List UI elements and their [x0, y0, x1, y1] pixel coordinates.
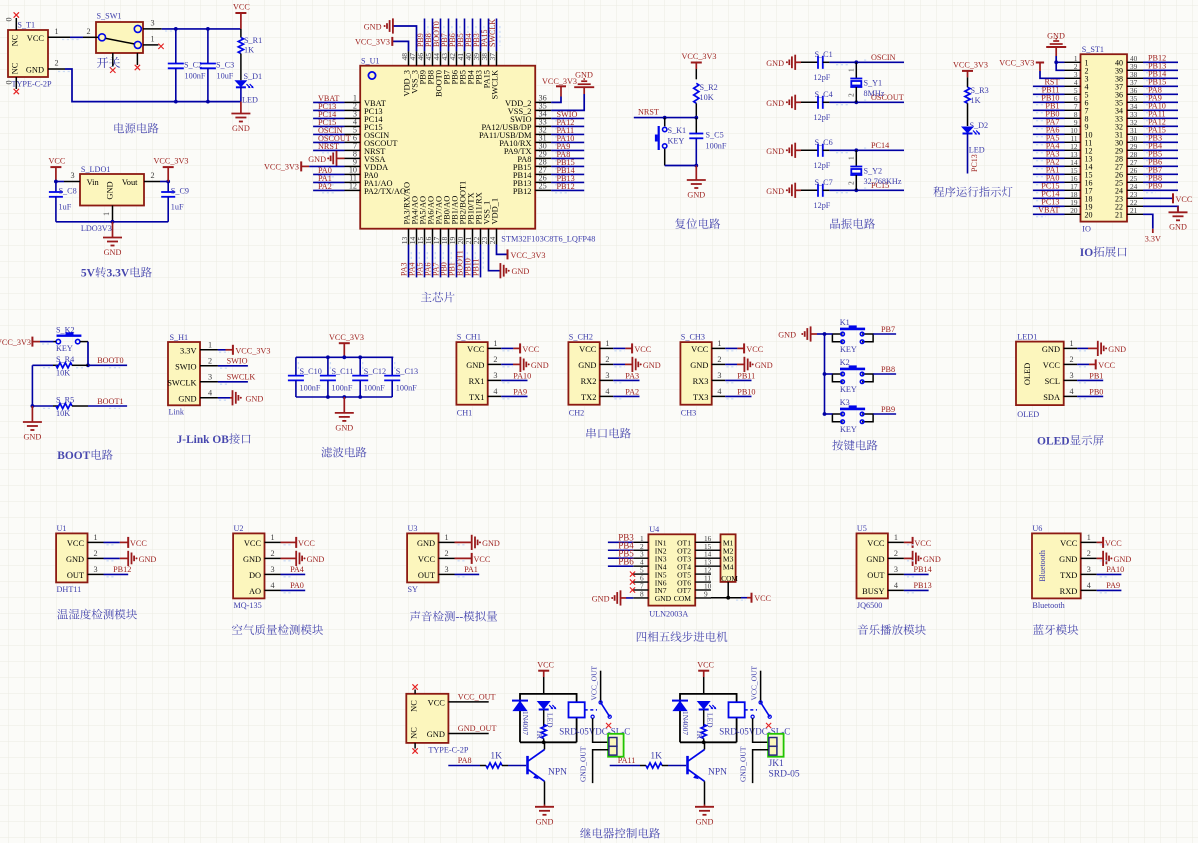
svg-text:1uF: 1uF	[59, 203, 72, 212]
no-connect X relay typec bottom	[412, 748, 417, 753]
svg-text:PB13: PB13	[914, 581, 932, 590]
svg-text:S_C2: S_C2	[184, 61, 202, 70]
U1 top net wires and rotated labels	[424, 19, 426, 52]
header S_CH1 body	[456, 342, 487, 405]
svg-text:100nF: 100nF	[185, 72, 206, 81]
svg-text:GND: GND	[466, 361, 484, 370]
S_T1 pin 1 VCC pin line	[48, 36, 70, 38]
resistor S_R4 10K	[32, 364, 53, 366]
svg-text:K1: K1	[840, 318, 850, 327]
svg-text:100nF: 100nF	[396, 384, 417, 393]
svg-text:S_C4: S_C4	[815, 90, 833, 99]
wire U1 to PB12	[104, 573, 129, 575]
capacitor S_C3 10uF	[207, 29, 209, 64]
U2 pin lines	[265, 541, 281, 543]
flyback diode 1N4007	[512, 700, 528, 702]
svg-text:PB9: PB9	[1148, 182, 1162, 191]
ground flag OLED	[1097, 341, 1099, 356]
wire SWCLK	[218, 381, 248, 383]
svg-text:S_CH1: S_CH1	[457, 333, 481, 342]
U1 left pin lines 1-12	[345, 101, 361, 103]
svg-text:U1: U1	[57, 524, 67, 533]
module U6 Bluetooth body	[1032, 533, 1081, 598]
svg-text:S_SW1: S_SW1	[97, 12, 122, 21]
svg-text:GND_OUT: GND_OUT	[458, 724, 497, 733]
wire U6 to PA10	[1097, 573, 1122, 575]
svg-text:10uF: 10uF	[217, 72, 234, 81]
svg-text:2: 2	[87, 27, 91, 36]
NPN transistor	[526, 756, 529, 774]
svg-text:VCC: VCC	[522, 345, 539, 354]
svg-text:3.3V: 3.3V	[180, 346, 197, 355]
svg-text:S_CH2: S_CH2	[569, 333, 593, 342]
svg-text:2: 2	[847, 93, 856, 97]
svg-text:3.3V: 3.3V	[106, 268, 129, 280]
title BOOT电路	[57, 449, 112, 462]
svg-text:S_D2: S_D2	[970, 121, 989, 130]
svg-text:SWIO: SWIO	[227, 357, 248, 366]
svg-text:S_C1: S_C1	[815, 50, 833, 59]
svg-text:GND: GND	[655, 594, 672, 603]
resistor S_R5 10K	[32, 405, 53, 407]
svg-text:GND: GND	[66, 555, 84, 564]
svg-text:PA3: PA3	[625, 372, 639, 381]
svg-text:GND: GND	[417, 539, 435, 548]
ground flag S_CH2	[631, 357, 633, 372]
svg-text:S_R2: S_R2	[700, 83, 718, 92]
svg-text:1: 1	[847, 156, 856, 160]
svg-text:VCC: VCC	[428, 698, 446, 707]
junction S_C3 bottom	[206, 100, 210, 104]
relay switch blade	[761, 702, 770, 716]
svg-text:GND: GND	[482, 539, 500, 548]
svg-text:1: 1	[1087, 533, 1091, 542]
TYPE-C bottom pin stub	[414, 743, 416, 749]
relay coil outline box	[520, 694, 577, 742]
svg-text:PA10: PA10	[1106, 565, 1124, 574]
S_LDO1 pin 3 line	[64, 181, 80, 183]
svg-text:1K: 1K	[535, 730, 544, 740]
power bar VCC S_CH2	[631, 343, 633, 353]
svg-text:Vin: Vin	[87, 178, 100, 187]
svg-text:3: 3	[208, 373, 212, 382]
wire S_T1 VCC to switch	[70, 36, 83, 38]
svg-text:5V: 5V	[81, 268, 96, 280]
power bar VCC U1	[127, 537, 129, 548]
power bar VCC U3	[471, 553, 473, 564]
power flag VCC_3V3 right of chip	[560, 86, 562, 96]
svg-text:VCC: VCC	[467, 345, 485, 354]
svg-text:K2: K2	[840, 358, 850, 367]
ground symbol power circuit	[240, 102, 242, 113]
U1 pin lines	[88, 541, 104, 543]
capacitor S_C4 12pF	[801, 101, 818, 103]
title 主芯片	[421, 292, 455, 303]
svg-text:12pF: 12pF	[814, 113, 831, 122]
svg-text:GND: GND	[766, 99, 784, 108]
svg-text:10K: 10K	[56, 368, 70, 377]
svg-text:U6: U6	[1032, 524, 1042, 533]
power flag VCC_3V3 filter	[339, 342, 350, 344]
svg-text:VCC_3V3: VCC_3V3	[542, 77, 577, 86]
power bar VCC stepper	[751, 593, 753, 603]
junction NRST-R2-C5	[694, 116, 698, 120]
svg-text:VCC: VCC	[867, 539, 885, 548]
svg-text:1: 1	[271, 533, 275, 542]
svg-text:BUSY: BUSY	[862, 587, 884, 596]
svg-text:24: 24	[488, 237, 497, 245]
svg-text:PC14: PC14	[871, 141, 889, 150]
svg-text:GND: GND	[536, 818, 554, 827]
U6 pin lines	[1081, 541, 1097, 543]
U1 pin1 marker circle	[368, 72, 375, 79]
svg-text:STM32F103C8T6_LQFP48: STM32F103C8T6_LQFP48	[501, 235, 595, 244]
wire filter top rail	[296, 356, 393, 358]
wire VCC_3V3 to K2	[40, 341, 54, 343]
svg-text:NRST: NRST	[638, 108, 659, 117]
svg-text:TX3: TX3	[693, 393, 708, 402]
wire collector to relay	[704, 742, 706, 749]
svg-text:RX2: RX2	[581, 377, 597, 386]
junction S_C2 bottom	[174, 100, 178, 104]
svg-text:1K: 1K	[650, 752, 662, 762]
svg-text:PA2/TX/AO: PA2/TX/AO	[364, 187, 406, 196]
resistor S_R3 1K	[967, 77, 969, 87]
power flag VCC_3V3 above C9	[163, 166, 174, 168]
svg-text:LED: LED	[969, 146, 985, 155]
svg-text:VCC: VCC	[49, 157, 66, 166]
svg-text:1: 1	[894, 533, 898, 542]
svg-text:M4: M4	[723, 562, 734, 571]
svg-text:OLED: OLED	[1017, 410, 1039, 419]
svg-text:PA0: PA0	[290, 581, 304, 590]
svg-text:8MHz: 8MHz	[864, 89, 885, 98]
svg-text:GND: GND	[755, 361, 773, 370]
wire VCC rail from switch pin3 to R1	[162, 28, 241, 30]
svg-text:12pF: 12pF	[814, 161, 831, 170]
wire bottom GND rail	[48, 68, 65, 70]
svg-text:CH1: CH1	[457, 409, 472, 418]
svg-text:VCC: VCC	[1060, 539, 1078, 548]
capacitor S_C8 1uF	[55, 182, 57, 193]
svg-text:3: 3	[493, 371, 497, 380]
wire BOOT0	[88, 364, 127, 366]
no-connect X relay NC contact	[606, 723, 611, 728]
wire U2 to PA0	[281, 589, 306, 591]
svg-text:LED1: LED1	[1017, 332, 1037, 341]
svg-text:0: 0	[5, 17, 14, 21]
junction S_C3 top	[206, 27, 210, 31]
svg-text:1: 1	[445, 533, 449, 542]
power bar VCC U2	[295, 537, 297, 548]
flyback diode 1N4007	[672, 700, 688, 702]
wire S_CH2 RX net PA3	[613, 379, 639, 381]
wire LED to PC13	[967, 134, 969, 174]
ground flag for S_C6	[794, 143, 796, 158]
svg-text:GND: GND	[766, 187, 784, 196]
svg-text:S_C9: S_C9	[171, 187, 189, 196]
S_T1 top NC pin stub	[15, 18, 17, 30]
ground flag bottom right of chip	[499, 263, 501, 278]
screw terminal connector	[768, 734, 784, 757]
svg-text:20: 20	[1070, 206, 1078, 215]
wire K2 to PB8	[873, 373, 896, 375]
svg-text:2: 2	[847, 181, 856, 185]
svg-text:S_C8: S_C8	[59, 187, 77, 196]
svg-text:VBAT: VBAT	[1038, 206, 1059, 215]
wire motor COM down	[727, 582, 729, 598]
junctions filter bottom rail	[326, 395, 330, 399]
ground flag for S_C1	[794, 55, 796, 70]
svg-text:S_C10: S_C10	[300, 367, 322, 376]
svg-text:VCC_3V3: VCC_3V3	[0, 338, 31, 347]
junction BOOT1 gnd rail	[31, 404, 35, 408]
ground flag at U1 VSSA pin 8	[337, 157, 345, 159]
svg-text:4: 4	[605, 387, 609, 396]
wire U2 VCC	[281, 541, 297, 543]
crystal S_Y1 8MHz	[854, 60, 858, 64]
wire left rail boot	[31, 365, 33, 406]
svg-text:VCC_3V3: VCC_3V3	[329, 333, 364, 342]
svg-text:MQ-135: MQ-135	[234, 601, 262, 610]
svg-text:GND: GND	[1059, 555, 1077, 564]
wire filter bottom rail	[296, 396, 392, 398]
S_CH2 pin lines 1-4	[600, 347, 614, 349]
svg-text:CH2: CH2	[569, 409, 584, 418]
regulator S_LDO1 LDO3V3	[80, 174, 144, 206]
svg-text:S_H1: S_H1	[170, 333, 189, 342]
svg-text:100nF: 100nF	[706, 142, 727, 151]
svg-text:K3: K3	[840, 398, 850, 407]
junction rail K1	[823, 332, 827, 336]
svg-text:3: 3	[445, 565, 449, 574]
no-connect X switch bottom right	[135, 65, 140, 70]
title 5V转3.3V电路	[81, 267, 152, 280]
wire ST1 pin23 to VCC	[1143, 197, 1172, 199]
resistor 1K relay led	[703, 710, 705, 726]
wire base to transistor	[668, 765, 686, 767]
svg-text:PA8: PA8	[458, 756, 472, 765]
wire S_CH2 GND	[613, 363, 625, 365]
svg-text:PB0: PB0	[1089, 388, 1103, 397]
svg-text:S_C13: S_C13	[396, 367, 418, 376]
svg-text:GND: GND	[1169, 223, 1187, 232]
net stub 3.3V	[1152, 229, 1154, 233]
ground flag top left of chip	[392, 18, 394, 33]
S_SW1 pin 1 contact circle	[134, 41, 141, 48]
svg-text:GND: GND	[308, 155, 326, 164]
ST1 right pin lines	[1127, 61, 1143, 63]
svg-text:VCC: VCC	[537, 661, 554, 670]
wire OLED SDA to PB0	[1077, 395, 1103, 397]
title 继电器控制电路	[580, 828, 660, 839]
svg-text:GND: GND	[778, 331, 796, 340]
wire S_CH2 TX net PA2	[613, 395, 639, 397]
crystal S_Y2 32.768KHz	[854, 148, 858, 152]
no-connect X relay typec top	[412, 684, 417, 689]
title 四相五线步进电机	[637, 631, 728, 642]
svg-text:4: 4	[208, 389, 212, 398]
svg-text:PB12: PB12	[513, 187, 532, 196]
wire Vout to VCC_3V3	[160, 181, 168, 183]
wire U1 VSS_1 pin23 to GND	[489, 245, 501, 271]
svg-text:GND: GND	[139, 555, 157, 564]
S_SW1 pin 2 contact circle	[99, 34, 106, 41]
svg-text:4: 4	[493, 387, 497, 396]
U1 top pin lines 48-37	[408, 51, 410, 65]
svg-text:GND: GND	[178, 394, 196, 403]
svg-text:SWCLK: SWCLK	[167, 378, 196, 387]
module LED1 OLED body	[1016, 342, 1064, 406]
IC S_U1 STM32F103C8T6_LQFP48 body	[360, 66, 535, 229]
svg-text:Bluetooth: Bluetooth	[1032, 601, 1064, 610]
title 蓝牙模块	[1033, 624, 1078, 635]
svg-text:2: 2	[605, 355, 609, 364]
LED1 pin lines 1-4	[1064, 347, 1078, 349]
svg-text:OUT: OUT	[418, 571, 435, 580]
svg-text:GND: GND	[232, 124, 250, 133]
wire U3 GND	[455, 541, 472, 543]
S_SW1 pin 2 pin line	[83, 36, 98, 38]
svg-text:GND: GND	[687, 191, 705, 200]
svg-text:GND: GND	[307, 555, 325, 564]
svg-text:VCC: VCC	[418, 555, 436, 564]
svg-text:S_Y2: S_Y2	[864, 167, 883, 176]
svg-text:DO: DO	[249, 571, 261, 580]
svg-text:SY: SY	[408, 585, 419, 594]
S_H1 pin lines 1-4	[200, 349, 218, 351]
svg-text:VCC: VCC	[579, 345, 597, 354]
relay dashed link	[745, 709, 757, 711]
S_SW1 bottom pin stubs	[112, 53, 114, 67]
TYPE-C top pin stub	[414, 690, 416, 694]
title 程序运行指示灯	[933, 186, 1012, 196]
power flag VCC_3V3 reset	[691, 62, 702, 64]
title 声音检测--模拟量	[410, 611, 497, 624]
svg-text:2: 2	[271, 549, 275, 558]
ground symbol LDO	[112, 222, 114, 237]
svg-text:PA11: PA11	[618, 756, 636, 765]
power bar VCC U5	[912, 537, 914, 548]
U3 pin lines	[439, 541, 455, 543]
IC U4 ULN2003A body	[648, 534, 695, 605]
relay indicator LED	[697, 701, 711, 710]
svg-text:1: 1	[493, 339, 497, 348]
svg-text:S_R3: S_R3	[971, 86, 989, 95]
svg-text:IO: IO	[1082, 225, 1091, 234]
connector TYPE-C-2P relay power	[406, 694, 448, 743]
svg-text:GND: GND	[512, 267, 530, 276]
wire S_CH3 GND	[725, 363, 737, 365]
svg-text:PB8: PB8	[881, 365, 895, 374]
capacitor S_C2 100nF	[175, 29, 177, 64]
ground symbol right of chip	[583, 87, 585, 94]
svg-text:TX1: TX1	[469, 393, 484, 402]
resistor S_R1 1K	[240, 29, 242, 38]
wire button rail	[824, 334, 826, 414]
svg-text:4: 4	[1087, 581, 1091, 590]
svg-text:GND: GND	[866, 555, 884, 564]
S_CH3 pin lines 1-4	[712, 347, 726, 349]
relay coil outline box	[680, 694, 737, 742]
svg-text:PA2: PA2	[318, 182, 332, 191]
svg-text:2: 2	[445, 549, 449, 558]
svg-text:1: 1	[151, 35, 155, 44]
svg-text:NC: NC	[11, 62, 20, 74]
S_SW1 pin 1 pin line	[143, 44, 158, 46]
svg-text:SWCLK: SWCLK	[227, 373, 256, 382]
title 空气质量检测模块	[232, 624, 323, 635]
svg-text:NPN: NPN	[548, 768, 567, 778]
power bar VCC right of ST1	[1172, 193, 1174, 203]
svg-text:IO: IO	[1080, 247, 1093, 259]
wire PC14 row	[829, 149, 904, 151]
title 滤波电路	[321, 447, 366, 458]
svg-text:GND: GND	[923, 555, 941, 564]
svg-text:VCC: VCC	[754, 594, 771, 603]
capacitor S_C6 12pF	[801, 149, 818, 151]
svg-text:12pF: 12pF	[814, 73, 831, 82]
S_LDO1 GND pin line	[112, 206, 114, 222]
svg-text:KEY: KEY	[840, 385, 857, 394]
svg-text:VCC: VCC	[244, 539, 262, 548]
svg-text:GND: GND	[1114, 555, 1132, 564]
wire collector to relay	[544, 742, 546, 749]
wire U3 to PA1	[455, 573, 480, 575]
module U5 JQ6500 body	[857, 533, 888, 598]
svg-text:1N4007: 1N4007	[681, 711, 690, 735]
wire U1 VSS_2 pin35 to GND	[551, 94, 584, 110]
svg-text:10K: 10K	[56, 409, 70, 418]
svg-text:1: 1	[94, 533, 98, 542]
U1 right pin lines 36-25	[535, 101, 551, 103]
svg-text:VCC: VCC	[233, 3, 250, 12]
wire S_CH1 GND	[501, 363, 513, 365]
svg-text:PA1: PA1	[464, 565, 478, 574]
svg-text:S_C5: S_C5	[706, 131, 724, 140]
wire U4 COM pin9 to VCC	[711, 597, 741, 599]
svg-text:S_C11: S_C11	[332, 367, 354, 376]
svg-text:S_D1: S_D1	[244, 72, 263, 81]
power flag VCC_3V3 indicator	[962, 70, 973, 72]
svg-text:VCC: VCC	[1098, 361, 1115, 370]
base resistor 1K from PA11	[610, 765, 640, 767]
S_SW1 pin 3 contact circle	[134, 25, 141, 32]
svg-text:SRD-05: SRD-05	[769, 770, 800, 780]
junction rail K2	[823, 372, 827, 376]
svg-text:DHT11: DHT11	[57, 585, 82, 594]
U1 bottom net wires and rotated labels	[408, 245, 410, 278]
wire H1 pin4 to GND	[218, 397, 230, 399]
svg-text:GND: GND	[575, 71, 593, 80]
wire relay NO contact to connector	[753, 718, 769, 742]
svg-text:VCC_OUT: VCC_OUT	[590, 665, 599, 700]
header S_CH3 body	[680, 342, 711, 405]
svg-text:OUT: OUT	[67, 571, 84, 580]
svg-text:1K: 1K	[695, 730, 704, 740]
U1 left net wires and labels	[313, 101, 344, 103]
wire emitter to GND	[544, 781, 546, 804]
svg-text:2: 2	[1070, 355, 1074, 364]
title J-Link OB接口	[177, 433, 251, 446]
svg-text:VCC: VCC	[697, 661, 714, 670]
ground flag S_CH1	[519, 357, 521, 372]
junction LDO GND node	[111, 220, 115, 224]
svg-text:0: 0	[5, 80, 14, 84]
svg-text:COM: COM	[721, 574, 738, 583]
svg-text:2: 2	[717, 355, 721, 364]
svg-text:32.768KHz: 32.768KHz	[864, 177, 902, 186]
